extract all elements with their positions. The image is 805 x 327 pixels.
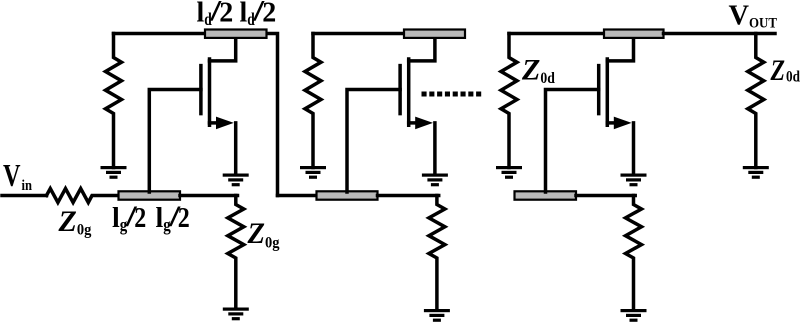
resistor Z0d output termination bbox=[748, 34, 764, 168]
wire drain line stage 2 left bbox=[313, 32, 404, 36]
ground Q2 source bbox=[422, 174, 448, 187]
svg-text:ld/2: ld/2 bbox=[240, 0, 277, 29]
wire drain line stage 3 left bbox=[509, 32, 604, 36]
resistor Z0g gate termination stage 1 bbox=[228, 196, 244, 309]
ground output termination bbox=[743, 166, 769, 179]
wire drain line stage 1 right to stage 2 gate bbox=[267, 34, 278, 196]
wire gate line stage 3 right bbox=[576, 194, 635, 198]
ground drain termination stage 1 bbox=[101, 166, 127, 179]
ground drain termination stage 3 bbox=[496, 166, 522, 179]
wire gate line stage 2 bbox=[278, 194, 317, 198]
transistor Q3 bbox=[599, 37, 634, 175]
transmission line ld/2 stage 3 bbox=[604, 30, 664, 38]
resistor drain termination stage 2 bbox=[305, 34, 321, 168]
transmission line lg/2 stage 3 bbox=[515, 191, 577, 199]
svg-text:lg/2: lg/2 bbox=[112, 200, 146, 235]
wire gate line stage 1 right bbox=[180, 194, 238, 198]
wire drain line stage 1 left bbox=[114, 32, 206, 36]
ground Q1 source bbox=[223, 174, 249, 187]
resistor gate termination stage 2 bbox=[429, 196, 445, 311]
ground drain termination stage 2 bbox=[300, 166, 326, 179]
wire Vin lead bbox=[2, 194, 47, 198]
svg-text:lg/2: lg/2 bbox=[156, 200, 190, 235]
resistor gate termination stage 3 bbox=[626, 196, 642, 311]
transistor Q1 bbox=[201, 37, 236, 175]
wire gate line stage 2 right bbox=[378, 194, 439, 198]
wire output line bbox=[664, 32, 776, 36]
transmission line ld/2 stage 2 bbox=[404, 30, 465, 38]
wire gate riser stage 3 bbox=[546, 90, 599, 193]
wire gate riser stage 1 bbox=[149, 90, 201, 193]
ground Q3 source bbox=[621, 174, 647, 187]
ground gate termination stage 1 bbox=[223, 308, 249, 321]
resistor drain termination stage 1 bbox=[106, 34, 122, 168]
transmission line ld/2 stage 1 bbox=[205, 30, 267, 38]
dotted line continuation bbox=[422, 92, 482, 97]
resistor Z0d drain termination stage 3 bbox=[501, 34, 517, 168]
ground gate termination stage 3 bbox=[621, 309, 647, 322]
transistor Q2 bbox=[400, 37, 435, 175]
wire gate riser stage 2 bbox=[347, 90, 400, 193]
transmission line lg/2 stage 1 bbox=[119, 191, 181, 199]
svg-text:ld/2: ld/2 bbox=[197, 0, 234, 29]
transmission line lg/2 stage 2 bbox=[317, 191, 378, 199]
resistor Z0g series bbox=[47, 189, 119, 203]
ground gate termination stage 2 bbox=[424, 309, 450, 322]
